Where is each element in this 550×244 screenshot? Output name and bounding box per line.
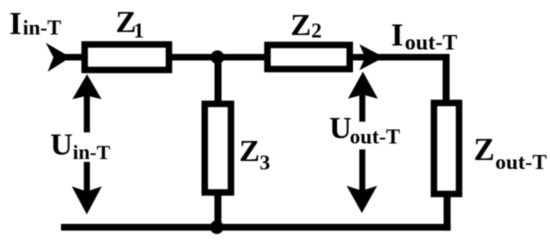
svg-text:U: U: [329, 110, 351, 145]
impedance Zout-T (box): [434, 103, 459, 194]
wire: Z2 to output arrow: [348, 54, 384, 61]
impedance Z2 (box): [267, 45, 349, 69]
node: bottom junction dot: [210, 220, 224, 234]
wire: node down to Z3: [215, 57, 222, 105]
svg-text:Z: Z: [474, 132, 495, 167]
arrow Uout-T lower shaft: [359, 149, 365, 191]
svg-text:U: U: [50, 126, 72, 161]
input current arrowhead (dart): [46, 43, 71, 72]
arrow Uin-T up head: [72, 74, 101, 99]
arrow Uin-T down head: [72, 186, 102, 214]
impedance Z3 (box): [205, 104, 231, 193]
svg-text:out-T: out-T: [405, 29, 458, 54]
svg-text:out-T: out-T: [495, 150, 547, 174]
arrow Uin-T lower shaft: [84, 162, 90, 193]
svg-text:in-T: in-T: [73, 142, 111, 164]
svg-text:Z: Z: [291, 7, 312, 42]
arrow Uout-T upper shaft: [359, 94, 365, 122]
output current arrowhead (dart): [359, 44, 384, 70]
svg-text:1: 1: [134, 19, 145, 43]
svg-text:in-T: in-T: [23, 16, 62, 40]
arrow Uout-T up head: [348, 72, 378, 99]
svg-text:3: 3: [260, 151, 271, 175]
wire: bottom rail: [61, 224, 451, 231]
impedance Z1 (box): [85, 44, 169, 69]
svg-text:I: I: [391, 17, 403, 53]
wire: arrow tip to top-right corner: [380, 54, 449, 61]
wire: top-right corner down to Zout: [443, 54, 450, 104]
svg-text:out-T: out-T: [350, 125, 400, 149]
svg-text:Z: Z: [239, 133, 260, 168]
arrow Uin-T upper shaft: [84, 95, 90, 132]
wire: Zout down to bottom rail: [444, 194, 451, 231]
svg-text:2: 2: [311, 18, 322, 42]
wire: input lead into Z1: [57, 54, 85, 61]
wire: Z1 to Z2 through node: [167, 54, 267, 61]
svg-text:I: I: [9, 5, 21, 41]
node: top junction dot: [211, 50, 225, 64]
arrow Uout-T down head: [347, 186, 378, 213]
wire: Z3 down to bottom rail: [214, 192, 221, 228]
